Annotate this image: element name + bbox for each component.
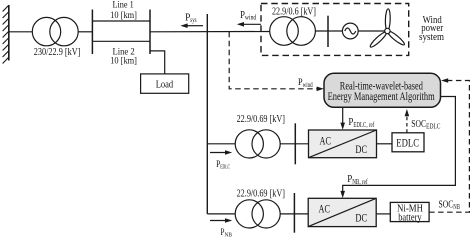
svg-text:battery: battery (398, 212, 422, 224)
svg-text:system: system (419, 31, 444, 43)
svg-text:10 [km]: 10 [km] (110, 56, 137, 67)
svg-text:DC: DC (355, 213, 367, 225)
svg-text:AC: AC (319, 204, 331, 216)
svg-text:DC: DC (355, 144, 367, 156)
svg-text:10 [km]: 10 [km] (110, 10, 137, 21)
svg-text:EDLC: EDLC (396, 136, 419, 150)
svg-text:AC: AC (320, 135, 332, 147)
svg-text:22.9/0.69 [kV]: 22.9/0.69 [kV] (237, 188, 285, 200)
svg-text:230/22.9 [kV]: 230/22.9 [kV] (34, 46, 81, 58)
svg-text:22.9/0.6 [kV]: 22.9/0.6 [kV] (272, 5, 316, 17)
svg-text:22.9/0.69 [kV]: 22.9/0.69 [kV] (237, 113, 285, 125)
svg-text:Load: Load (156, 78, 174, 90)
svg-text:Energy Management Algorithm: Energy Management Algorithm (328, 91, 435, 103)
